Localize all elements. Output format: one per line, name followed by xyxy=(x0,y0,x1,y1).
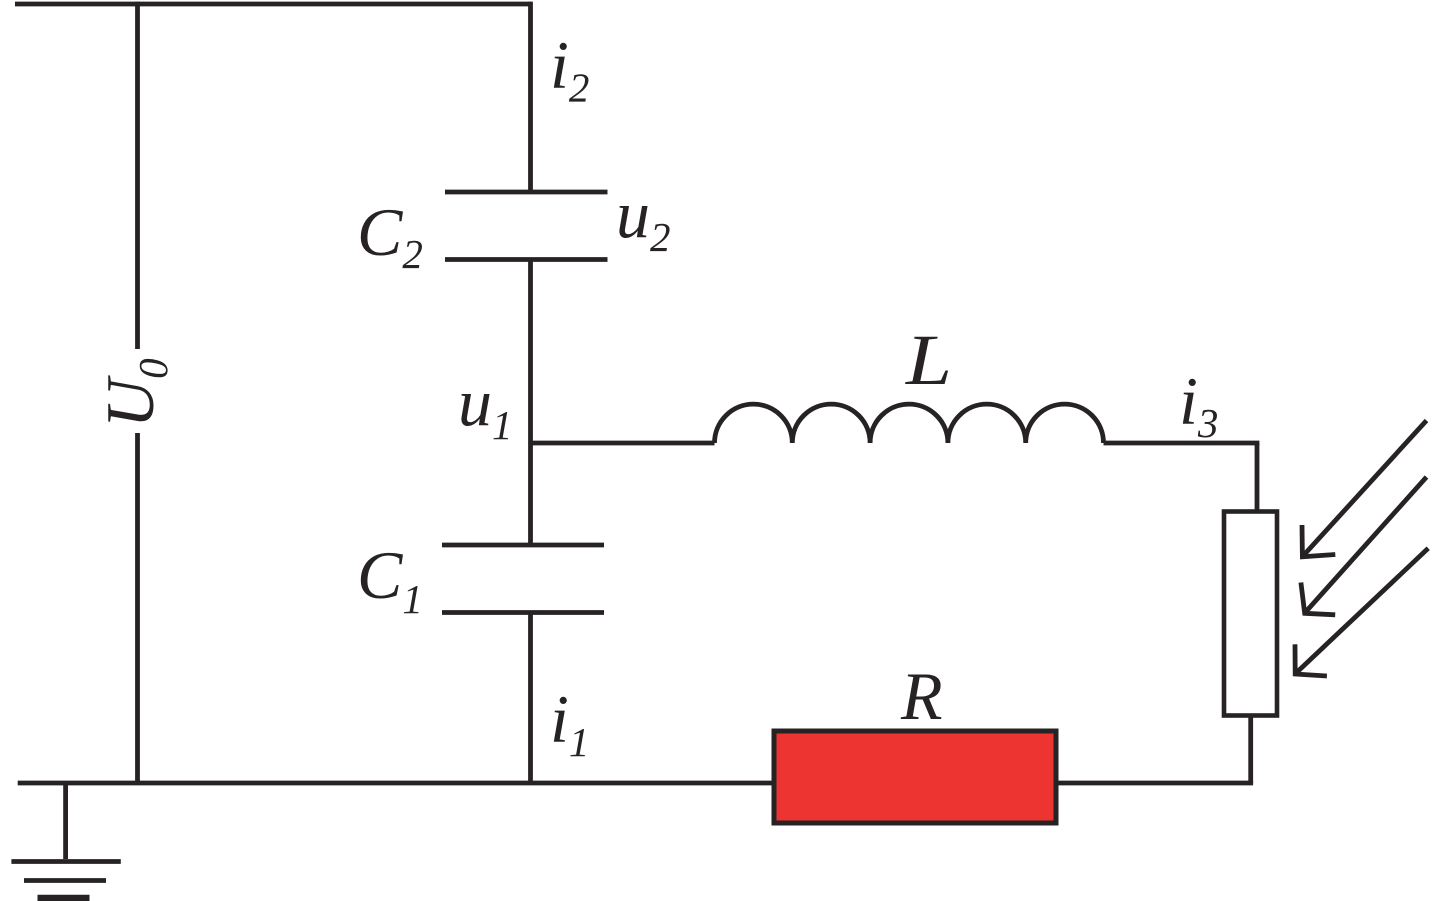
inductor L xyxy=(715,404,1104,443)
wire top horizontal xyxy=(15,2,531,7)
wire left vertical upper (U0 branch) xyxy=(135,2,140,349)
svg-text:u1: u1 xyxy=(458,364,513,448)
wire C2 to node u1 to C1 xyxy=(528,260,533,546)
wire bottom horizontal xyxy=(18,781,1253,786)
wire right vertical upper xyxy=(1255,443,1260,513)
svg-text:i3: i3 xyxy=(1179,363,1218,446)
svg-text:R: R xyxy=(900,658,943,734)
svg-text:C1: C1 xyxy=(357,537,423,622)
ground symbol xyxy=(11,862,120,899)
svg-text:i1: i1 xyxy=(550,681,589,765)
svg-text:i2: i2 xyxy=(550,27,589,111)
svg-text:U0: U0 xyxy=(92,358,176,428)
wire right vertical lower xyxy=(1248,716,1253,784)
svg-text:u2: u2 xyxy=(616,176,671,260)
svg-text:C2: C2 xyxy=(357,194,423,277)
svg-text:L: L xyxy=(905,320,952,400)
light arrow 1 xyxy=(1302,421,1427,557)
wire left vertical lower (U0 branch) xyxy=(135,433,140,783)
capacitor C2 xyxy=(445,192,608,260)
wire capacitor branch top (i2) xyxy=(528,2,533,192)
light arrow 2 xyxy=(1301,477,1427,615)
resistor R xyxy=(774,731,1056,823)
light arrow 3 xyxy=(1295,548,1428,676)
photoresistor body xyxy=(1224,512,1277,716)
wire inductor to right corner xyxy=(1104,441,1260,446)
wire node u1 to inductor xyxy=(531,441,715,446)
wire C1 to bottom wire (i1) xyxy=(528,613,533,784)
capacitor C1 xyxy=(442,545,604,613)
ground stub xyxy=(63,783,68,859)
